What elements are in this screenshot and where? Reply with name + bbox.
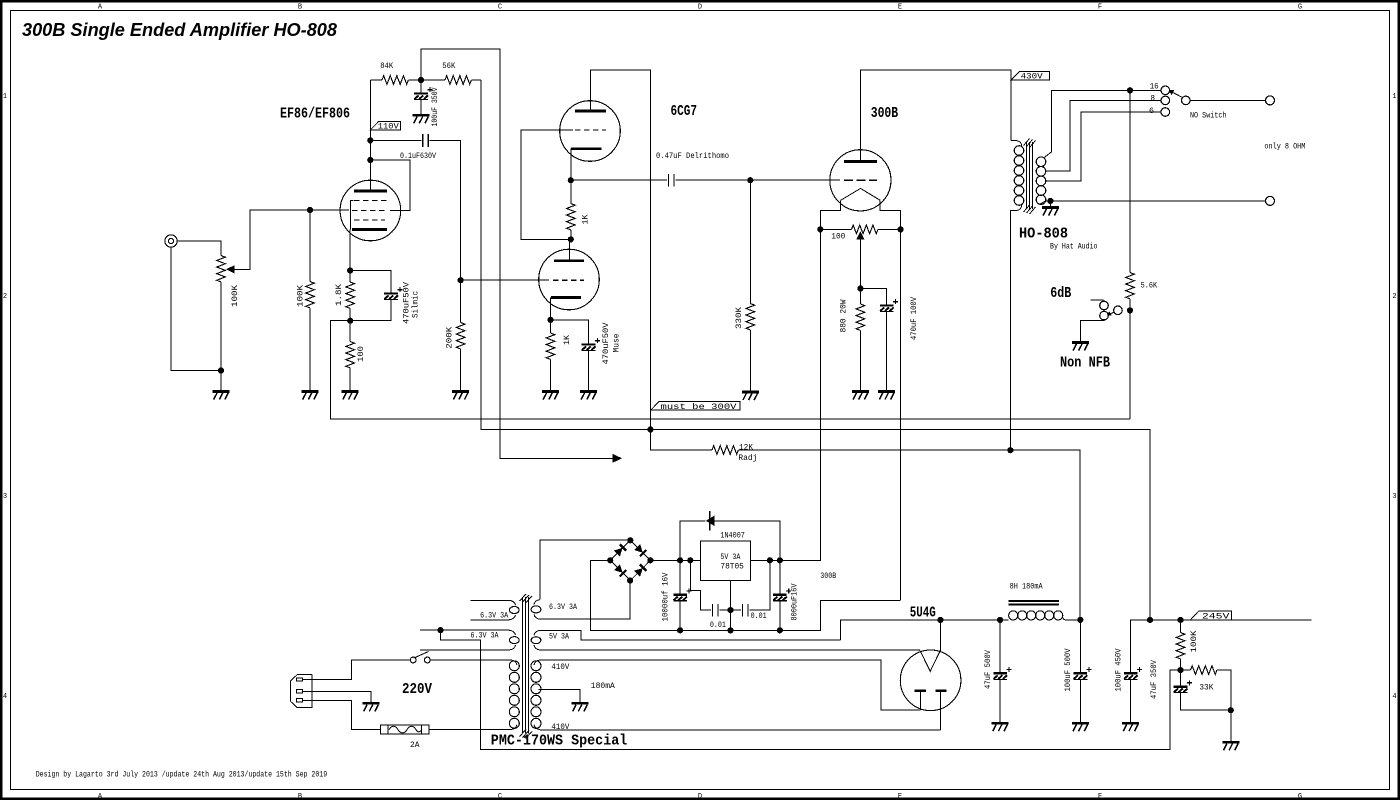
- svg-text:1: 1: [1392, 93, 1396, 101]
- wire bridge minus rail: [590, 560, 900, 630]
- svg-text:C: C: [498, 793, 502, 800]
- wire plug live: [303, 660, 411, 680]
- resistor 1K upper: [570, 180, 572, 203]
- wire jack sleeve down: [171, 247, 221, 370]
- bridge diode L-B: [614, 564, 626, 576]
- bridge rectifier edges: [610, 540, 650, 580]
- resistor 12K Radj: [712, 446, 738, 455]
- ground NFB switch: [1072, 343, 1089, 351]
- svg-text:5U4G: 5U4G: [910, 606, 936, 622]
- node regulator gnd pin: [727, 607, 733, 613]
- wire switch to primary: [430, 659, 510, 661]
- 300B plate lead to OPT: [860, 70, 1011, 162]
- tube V3 300B envelope: [830, 150, 891, 211]
- svg-text:must be 300V: must be 300V: [661, 403, 737, 412]
- node grid input: [307, 207, 313, 213]
- bridge diode L-T: [614, 544, 626, 556]
- node 47uF: [997, 617, 1003, 623]
- V2a plate lead to B+: [591, 70, 651, 430]
- svg-text:100K: 100K: [1190, 630, 1199, 652]
- node V2a cathode: [568, 177, 574, 183]
- node 245V/B+ feed: [1147, 617, 1153, 623]
- svg-text:2: 2: [3, 293, 7, 301]
- resistor 880 20W cathode: [859, 289, 861, 305]
- diode 1N4007 protection: [680, 521, 780, 561]
- wire Radj line: [650, 430, 712, 451]
- svg-text:470uF 100V: 470uF 100V: [910, 297, 919, 340]
- node cathode / 1.8K: [347, 267, 353, 273]
- T2 heater winding 6.3V right: [534, 600, 540, 620]
- capacitor 470uF 100V cathode bypass: [860, 289, 886, 306]
- terminal speaker +: [1266, 96, 1275, 105]
- node 10000uF: [677, 557, 683, 563]
- svg-text:4: 4: [1392, 693, 1396, 701]
- wire 8 ohm tap: [1046, 100, 1161, 171]
- svg-text:100uF 450V: 100uF 450V: [1114, 648, 1123, 691]
- T2 5V winding: [534, 630, 540, 650]
- arrow to Radj node: [613, 454, 623, 463]
- capacitor 0.1uF630V coupling: [370, 139, 421, 141]
- ground Muse: [580, 392, 597, 400]
- wire B+ 245V rail: [481, 80, 1150, 620]
- svg-text:330K: 330K: [735, 307, 744, 329]
- svg-text:D: D: [698, 4, 702, 12]
- tag 110V: [370, 121, 400, 129]
- wire NFB vertical: [1129, 90, 1131, 272]
- svg-text:EF86/EF806: EF86/EF806: [280, 106, 350, 122]
- tube V1 EF86 envelope: [340, 180, 401, 241]
- capacitor 100uF 450V: [1124, 667, 1142, 679]
- wire 16 ohm tap: [1044, 90, 1161, 158]
- ground pot: [213, 392, 230, 400]
- node filament right: [898, 226, 904, 232]
- svg-text:G: G: [1298, 4, 1302, 12]
- svg-text:NO Switch: NO Switch: [1190, 111, 1227, 120]
- NFB switch lower contact: [1100, 311, 1109, 320]
- node plate/0.1uF: [367, 137, 373, 143]
- svg-text:100uF 500V: 100uF 500V: [1064, 648, 1073, 691]
- T2 heater winding 6.3V mid-left: [420, 629, 509, 631]
- EF86 cathode: [352, 228, 387, 231]
- wire fuse to primary: [429, 729, 510, 731]
- svg-text:300B: 300B: [820, 572, 836, 581]
- svg-text:47uF 500V: 47uF 500V: [984, 650, 993, 689]
- svg-text:100K: 100K: [231, 285, 240, 307]
- capacitor 100uF 500V: [1079, 620, 1081, 674]
- OPT secondary winding: [1036, 157, 1046, 167]
- node secondary common: [1047, 198, 1053, 204]
- svg-text:430V: 430V: [1021, 73, 1043, 82]
- ground 470uF 100V: [878, 392, 895, 400]
- power switch SW1: [410, 657, 416, 663]
- svg-text:410V: 410V: [551, 723, 569, 732]
- V2b cathode lead: [550, 298, 552, 320]
- T2 HV winding 410V: [534, 660, 540, 730]
- capacitor 0.01 input: [713, 604, 718, 616]
- svg-text:200K: 200K: [446, 327, 455, 349]
- svg-text:47uF 350V: 47uF 350V: [1150, 660, 1159, 699]
- wire 6dB stub: [1090, 299, 1103, 302]
- tag 245V: [1191, 611, 1232, 620]
- svg-text:E: E: [898, 4, 902, 12]
- node 5U4G output: [937, 617, 943, 623]
- node heater bias tap: [437, 627, 443, 633]
- wire 0.01 input branch: [690, 560, 711, 610]
- node 300B grid: [747, 177, 753, 183]
- 5U4G filament: [920, 650, 940, 671]
- choke L1 8H 180mA: [1009, 601, 1060, 605]
- bridge diode T-R: [634, 544, 646, 556]
- svg-text:100: 100: [831, 233, 845, 242]
- svg-text:6.3V 3A: 6.3V 3A: [471, 632, 499, 641]
- node B+ / 6CG7 supply: [647, 426, 653, 432]
- hum pot wiper arrow: [856, 231, 864, 239]
- svg-text:100K: 100K: [296, 285, 305, 307]
- svg-text:880 20W: 880 20W: [840, 299, 849, 332]
- svg-text:56K: 56K: [442, 62, 455, 71]
- potentiometer VR1 100K: [217, 256, 226, 282]
- resistor 5.6K NFB: [1126, 273, 1135, 299]
- capacitor 10000uf 16V: [679, 560, 681, 594]
- pot wiper arrow: [226, 265, 235, 273]
- wire Non NFB to ground: [1080, 320, 1104, 341]
- tube V2a 6CG7 upper envelope: [560, 101, 621, 162]
- svg-text:C: C: [498, 4, 502, 12]
- svg-text:100: 100: [357, 346, 366, 362]
- wire pot bottom: [220, 282, 222, 371]
- wire 410V bottom to 5U4G right plate: [540, 729, 940, 731]
- node filament left: [817, 226, 823, 232]
- svg-text:B: B: [298, 4, 302, 12]
- svg-text:F: F: [1098, 793, 1102, 800]
- input jack J1: [165, 235, 177, 247]
- wire 6.3V to bridge AC1: [540, 540, 630, 600]
- 300B grid: [844, 179, 877, 181]
- wire plug earth: [303, 691, 372, 703]
- transformer T2 PMC-170WS primary winding: [511, 660, 518, 730]
- V2a grid loop wire: [521, 130, 573, 240]
- svg-text:3: 3: [1392, 493, 1396, 501]
- svg-text:Non NFB: Non NFB: [1060, 356, 1110, 372]
- svg-text:6dB: 6dB: [1050, 286, 1071, 302]
- V2b plate lead: [569, 239, 571, 260]
- EF86 g3-cathode tie: [350, 201, 353, 230]
- svg-text:33K: 33K: [1199, 683, 1213, 692]
- wire to lower 6CG7 grid: [461, 279, 549, 281]
- tube V4 5U4G envelope: [900, 650, 961, 711]
- T2 core: [523, 597, 529, 734]
- V2a cathode: [571, 147, 602, 150]
- svg-text:B: B: [298, 793, 302, 800]
- node NFB pickup at 16 ohm: [1127, 87, 1133, 93]
- svg-text:D: D: [698, 793, 702, 800]
- wire plug neutral: [303, 700, 381, 729]
- ground 880: [852, 392, 869, 400]
- wire filament return leg: [900, 229, 902, 599]
- wire screen connection: [370, 160, 410, 211]
- capacitor 470uF50V Muse bypass: [551, 320, 589, 345]
- svg-text:5.6K: 5.6K: [1141, 281, 1158, 290]
- ground 1K lower: [542, 392, 559, 400]
- svg-text:3: 3: [3, 493, 7, 501]
- wire input to EF86 grid: [310, 209, 349, 211]
- node V2b cathode: [547, 317, 553, 323]
- NFB switch arm: [1110, 312, 1114, 313]
- svg-text:78T05: 78T05: [720, 563, 744, 572]
- EF86 grid1: [354, 200, 387, 202]
- svg-text:10000uf 16V: 10000uf 16V: [661, 572, 670, 621]
- V2b cathode: [551, 296, 581, 299]
- resistor 56K: [421, 79, 445, 81]
- wire 6.3V to bridge AC2: [540, 581, 630, 619]
- svg-text:0.01: 0.01: [751, 612, 767, 621]
- wire bridge plus to regulator: [650, 559, 700, 561]
- svg-text:84K: 84K: [380, 62, 393, 71]
- wire 5V lead to 5U4G filament: [540, 649, 920, 651]
- svg-text:1K: 1K: [563, 335, 572, 345]
- svg-text:4: 4: [3, 693, 7, 701]
- node 100K bleeder: [1177, 617, 1183, 623]
- ground bias network: [1222, 742, 1239, 750]
- node 33K/47uF gnd: [1228, 707, 1234, 713]
- node OPT primary return: [1007, 447, 1013, 453]
- switch common contact: [1182, 96, 1191, 105]
- capacitor 0.47uF coupling: [571, 179, 667, 181]
- regulator U1 78T05 box: [700, 541, 750, 580]
- ground OPT secondary: [1049, 201, 1051, 207]
- switch contact 8: [1161, 96, 1170, 105]
- svg-text:PMC-170WS Special: PMC-170WS Special: [491, 734, 628, 750]
- NFB switch upper contact: [1100, 301, 1109, 310]
- svg-text:6.3V 3A: 6.3V 3A: [480, 612, 508, 621]
- svg-text:1.8K: 1.8K: [335, 284, 344, 306]
- svg-text:180mA: 180mA: [591, 682, 615, 691]
- svg-text:E: E: [898, 793, 902, 800]
- EF86 grid3: [354, 219, 385, 221]
- capacitor 100uF 350V decoupling: [420, 80, 422, 94]
- svg-text:Radj: Radj: [738, 454, 757, 463]
- 5U4G plates: [915, 689, 947, 692]
- svg-text:300B: 300B: [871, 106, 899, 122]
- node bridge bottom: [627, 577, 633, 583]
- svg-text:Silmic: Silmic: [412, 291, 421, 318]
- V2a plate: [575, 110, 606, 113]
- ground center tap: [572, 703, 589, 711]
- wire jack to pot: [177, 241, 221, 256]
- 300B plate: [844, 160, 877, 163]
- svg-text:Muse: Muse: [612, 333, 621, 352]
- capacitor 47uF 500V: [999, 620, 1001, 674]
- tube V2b 6CG7 lower envelope: [539, 249, 600, 310]
- svg-text:2A: 2A: [410, 741, 420, 750]
- ground R1: [302, 392, 319, 400]
- wire DC output line: [840, 620, 1008, 640]
- svg-text:110V: 110V: [378, 122, 399, 131]
- node bridge right: [647, 557, 653, 563]
- wire B+ top loop: [421, 49, 613, 458]
- svg-text:300B Single Ended Amplifier H: 300B Single Ended Amplifier HO-808: [22, 19, 338, 40]
- EF86 grid2: [352, 210, 387, 212]
- svg-text:F: F: [1098, 4, 1102, 12]
- svg-text:245V: 245V: [1202, 612, 1230, 621]
- node bias divider: [1177, 667, 1183, 673]
- node NFB switch: [1127, 307, 1133, 313]
- wire 410V top to 5U4G left plate: [540, 660, 920, 710]
- node 0.01 output branch: [767, 557, 773, 563]
- svg-text:1: 1: [3, 93, 7, 101]
- EF86 plate: [354, 190, 387, 193]
- svg-text:470uF50V: 470uF50V: [602, 322, 611, 364]
- svg-text:Design by Lagarto 3rd July 201: Design by Lagarto 3rd July 2013 /update …: [36, 770, 328, 779]
- svg-text:100uF 350V: 100uF 350V: [431, 87, 440, 126]
- capacitor 8000uF16V: [779, 560, 781, 594]
- node 84K/56K: [418, 77, 424, 83]
- EF86 plate lead: [369, 80, 371, 191]
- svg-text:8: 8: [1151, 95, 1156, 104]
- svg-text:5V 3A: 5V 3A: [720, 553, 740, 562]
- resistor R1 100K grid leak: [309, 210, 311, 282]
- svg-text:2: 2: [1392, 293, 1396, 301]
- V2b plate: [554, 259, 584, 262]
- capacitor 470uF50V Silmic bypass: [350, 271, 391, 294]
- node screen tap: [367, 157, 373, 163]
- wire NFB from cathode: [331, 321, 1130, 419]
- wire heater bias line: [441, 630, 1178, 749]
- svg-text:6.3V 3A: 6.3V 3A: [549, 603, 577, 612]
- node choke out: [1077, 617, 1083, 623]
- svg-text:5V 3A: 5V 3A: [549, 633, 569, 642]
- switch contact 16: [1161, 86, 1170, 95]
- switch arm: [1172, 92, 1182, 98]
- svg-text:6: 6: [1149, 107, 1154, 116]
- ground 200K: [452, 392, 469, 400]
- 300B filament: [841, 188, 881, 200]
- EF86 cathode lead: [349, 230, 351, 271]
- NFB switch common contact: [1114, 306, 1123, 315]
- svg-text:0.1uF630V: 0.1uF630V: [400, 152, 436, 161]
- svg-text:8H 180mA: 8H 180mA: [1010, 582, 1043, 591]
- bridge diode B-R: [634, 564, 646, 576]
- T2 heater winding 6.3V upper-left: [471, 599, 510, 601]
- capacitor 0.01 output: [743, 604, 748, 616]
- resistor 200K: [458, 277, 464, 283]
- wire 5V lead A: [540, 630, 840, 640]
- svg-text:1K: 1K: [581, 214, 590, 224]
- svg-text:220V: 220V: [402, 682, 432, 698]
- fuse F1 2A: [380, 725, 429, 734]
- capacitor 47uF 350V bias: [1180, 670, 1182, 687]
- wire to ground: [220, 371, 222, 392]
- potentiometer 100 hum balance: [820, 228, 851, 230]
- svg-text:470uF50V: 470uF50V: [402, 282, 411, 324]
- node 1K bottom: [568, 236, 574, 242]
- node hum wiper / 880: [857, 285, 863, 291]
- wire secondary common: [1040, 201, 1266, 204]
- OPT core: [1026, 142, 1032, 209]
- wire HV center tap: [539, 689, 581, 703]
- svg-text:By Hat Audio: By Hat Audio: [1050, 242, 1098, 251]
- node bridge left: [607, 557, 613, 563]
- wire to ground: [1230, 710, 1232, 742]
- svg-text:6CG7: 6CG7: [671, 104, 698, 120]
- svg-text:0.01: 0.01: [710, 621, 726, 630]
- resistor 33K: [1181, 669, 1191, 671]
- svg-text:only 8 OHM: only 8 OHM: [1264, 143, 1305, 152]
- ground plug: [363, 703, 380, 711]
- svg-text:8000uF16V: 8000uF16V: [791, 583, 800, 620]
- resistor 1.8K cathode: [349, 271, 351, 283]
- wire 6 ohm tap: [1046, 112, 1161, 181]
- tag 430V: [1011, 72, 1050, 80]
- svg-text:410V: 410V: [551, 663, 569, 672]
- wire 245V rail: [1131, 620, 1312, 674]
- wire regulator output: [751, 559, 821, 561]
- svg-text:HO-808: HO-808: [1019, 226, 1068, 243]
- node 0.01 input branch: [687, 557, 693, 563]
- node 8000uF: [777, 557, 783, 563]
- resistor 84K: [370, 79, 382, 81]
- node cathode bottom: [347, 318, 353, 324]
- V2b grid: [553, 279, 584, 281]
- node bridge top: [627, 537, 633, 543]
- resistor 1K lower: [550, 320, 552, 333]
- terminal speaker -: [1266, 196, 1275, 205]
- V2a cathode lead: [570, 149, 572, 181]
- OPT T1 HO-808 primary winding: [1011, 140, 1017, 142]
- ground 100uF: [413, 115, 430, 123]
- svg-text:1N4007: 1N4007: [720, 531, 745, 540]
- ground 330K: [742, 392, 759, 400]
- 5U4G filament dc lead: [939, 620, 941, 650]
- resistor 100K bleeder: [1180, 620, 1182, 633]
- resistor 100 NFB leg: [349, 321, 351, 342]
- ground 100: [342, 392, 359, 400]
- svg-text:G: G: [1298, 793, 1302, 800]
- svg-text:12K: 12K: [739, 444, 753, 453]
- svg-text:16: 16: [1150, 82, 1159, 91]
- svg-text:0.47uF Delrithomo: 0.47uF Delrithomo: [656, 152, 729, 161]
- resistor 330K grid leak: [749, 180, 751, 303]
- switch contact 6: [1161, 108, 1170, 117]
- tag must be 300V: [651, 401, 740, 410]
- node pot bottom: [218, 367, 224, 373]
- wire filament 5V+ leg: [819, 229, 821, 558]
- wire to speaker +: [1190, 99, 1265, 101]
- AC plug P1: [290, 675, 312, 708]
- V2a grid: [575, 129, 606, 131]
